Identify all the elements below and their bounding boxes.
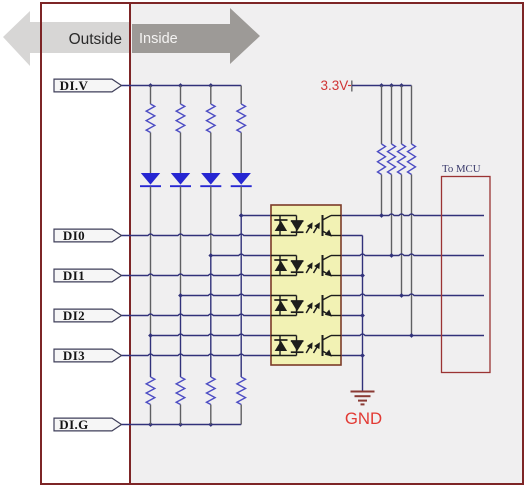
svg-text:To MCU: To MCU: [442, 163, 481, 175]
svg-text:DI.G: DI.G: [59, 417, 88, 432]
svg-text:DI1: DI1: [63, 268, 85, 283]
svg-text:DI0: DI0: [63, 228, 85, 243]
svg-text:DI3: DI3: [63, 348, 85, 363]
svg-text:DI.V: DI.V: [60, 78, 89, 93]
svg-text:3.3V: 3.3V: [321, 78, 349, 93]
svg-text:GND: GND: [345, 409, 382, 428]
svg-text:Inside: Inside: [139, 31, 178, 47]
svg-text:DI2: DI2: [63, 308, 85, 323]
svg-text:Outside: Outside: [69, 31, 122, 48]
